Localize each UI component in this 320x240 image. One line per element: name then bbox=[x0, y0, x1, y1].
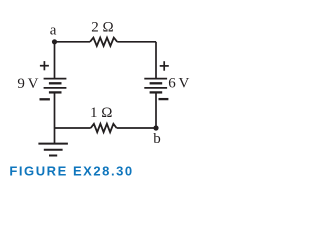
wire top-right: resistor to corner bbox=[117, 41, 156, 43]
wire top-left: node a to resistor bbox=[55, 41, 91, 43]
battery 6V plates bbox=[144, 79, 167, 93]
node b junction dot bbox=[153, 125, 158, 130]
minus sign 9V bbox=[40, 98, 50, 100]
svg-text:1 Ω: 1 Ω bbox=[90, 105, 112, 121]
svg-text:FIGURE EX28.30: FIGURE EX28.30 bbox=[9, 163, 133, 178]
wire bottom-right: node b to resistor bbox=[117, 127, 156, 129]
svg-text:2 Ω: 2 Ω bbox=[91, 19, 113, 35]
node a junction dot bbox=[52, 39, 57, 44]
battery 9V plates bbox=[44, 79, 67, 93]
minus sign 6V bbox=[159, 98, 169, 100]
resistor 1ohm zigzag bbox=[91, 124, 117, 132]
ground symbol bbox=[38, 144, 68, 156]
wire bottom-left: resistor to left rail junction bbox=[55, 127, 91, 129]
wire left: node a down to 9V battery top plate bbox=[54, 42, 56, 79]
svg-text:6 V: 6 V bbox=[168, 76, 189, 92]
svg-text:9 V: 9 V bbox=[17, 76, 38, 92]
svg-text:b: b bbox=[153, 131, 161, 147]
plus sign 6V bbox=[160, 61, 169, 70]
resistor 2ohm zigzag bbox=[90, 38, 117, 46]
wire right: top corner down to 6V battery top plate bbox=[155, 42, 157, 79]
wire left: 9V battery bottom through junction down to ground bbox=[54, 92, 56, 143]
wire right: 6V battery bottom to node b bbox=[155, 92, 157, 128]
svg-text:a: a bbox=[50, 22, 57, 38]
plus sign 9V bbox=[40, 61, 49, 70]
